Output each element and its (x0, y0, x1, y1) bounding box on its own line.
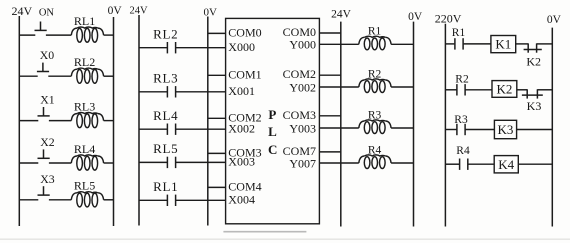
wire rung 3 section 2 left segment (139, 128, 167, 130)
label R1 (368, 26, 382, 38)
svg-text:R2: R2 (368, 68, 382, 80)
wire rung 2 section 1 right segment (104, 75, 114, 77)
wire from contact R2 to contactor K2 (465, 89, 492, 91)
switch X0 pushbutton contact (37, 63, 49, 72)
wire rung 3 section 1 left segment (19, 120, 38, 122)
relay coil R1 (359, 36, 391, 50)
pin label COM0 (283, 25, 316, 39)
contactor coil K1 box (491, 36, 516, 53)
wire input line to pin X003 (176, 161, 226, 163)
switch X2 pushbutton contact (38, 149, 50, 158)
label RL2 (74, 55, 95, 69)
label R3 (368, 109, 382, 121)
wire common stub to pin COM1 (208, 74, 226, 76)
wire rung 1 section 1 middle segment (46, 34, 71, 36)
contact R2 (relay R2 NO contact) (457, 84, 465, 95)
label C of PLC (268, 142, 277, 157)
contactor coil K3 box (494, 120, 516, 138)
wire rung 2 section 4 right segment (537, 89, 552, 91)
svg-text:Y003: Y003 (289, 121, 316, 135)
svg-text:X001: X001 (228, 84, 255, 98)
svg-text:RL5: RL5 (153, 141, 178, 156)
net label 0V (section 2) (203, 6, 217, 18)
relay coil RL3 (71, 112, 103, 127)
switch ON pushbutton contact (35, 22, 47, 31)
svg-text:COM4: COM4 (228, 180, 261, 194)
pin label Y003 (289, 121, 316, 135)
svg-text:0V: 0V (203, 6, 217, 18)
svg-text:Y007: Y007 (289, 156, 316, 170)
label R4 (368, 144, 382, 156)
wire rung 3 section 3 right segment (391, 127, 413, 129)
scan artifact - shadow under PLC box (223, 231, 306, 233)
svg-text:24V: 24V (11, 4, 32, 18)
wire input line to pin X004 (176, 199, 226, 201)
wire - 24V supply rail section 1 (18, 16, 20, 226)
wire common stub from pin COM0 to 24V rail (319, 32, 340, 34)
pin label X002 (228, 122, 255, 136)
label RL1 (74, 14, 95, 28)
svg-text:X0: X0 (40, 48, 55, 62)
wire output line Y002 to coil R2 (319, 86, 358, 88)
svg-text:220V: 220V (435, 11, 462, 25)
svg-text:R1: R1 (368, 26, 382, 38)
wire common stub from pin COM2 to 24V rail (319, 74, 340, 76)
label R2 (455, 73, 469, 85)
wire rung 2 section 1 left segment (19, 75, 37, 77)
svg-text:RL3: RL3 (74, 99, 95, 113)
contact RL4 (relay RL4 NO contact) (167, 124, 175, 135)
wire common stub to pin COM3 (208, 152, 226, 154)
svg-text:R3: R3 (368, 109, 382, 121)
wire rung 1 section 2 left segment (139, 47, 167, 49)
relay coil R4 (359, 155, 391, 169)
relay coil RL2 (71, 68, 103, 83)
wire from contact R4 to contactor K4 (468, 163, 494, 165)
label L of PLC (268, 124, 277, 139)
svg-text:K2: K2 (496, 82, 512, 97)
wire - 0V return rail section 4 (551, 28, 553, 227)
svg-text:K1: K1 (495, 37, 511, 52)
label P of PLC (268, 107, 276, 122)
svg-text:X003: X003 (228, 155, 255, 169)
wire rung 5 section 1 left segment (19, 199, 38, 201)
svg-text:C: C (268, 142, 277, 157)
svg-text:R1: R1 (452, 27, 466, 39)
wire rung 1 section 4 right segment (537, 43, 553, 45)
wire - 0V common rail section 2 (207, 17, 209, 226)
wire - 24V supply rail section 2 (138, 15, 140, 226)
net label 24V (section 3) (331, 8, 352, 20)
pin label Y007 (289, 156, 316, 170)
switch X3 pushbutton contact (38, 186, 50, 195)
wire from contact R1 to contactor K1 (464, 43, 491, 45)
pin label X000 (228, 40, 255, 54)
PLC controller U1 outline (226, 18, 320, 223)
svg-text:Y000: Y000 (289, 38, 316, 52)
wire common stub from pin COM3 to 24V rail (319, 115, 340, 117)
wire rung 4 section 3 right segment (391, 162, 413, 164)
svg-text:COM2: COM2 (283, 67, 316, 81)
wire input line to pin X002 (176, 128, 226, 130)
wire output line Y000 to coil R1 (319, 43, 358, 45)
svg-text:RL2: RL2 (153, 26, 178, 41)
label X3 (40, 172, 55, 186)
net label 24V (section 2) (129, 6, 148, 17)
wire rung 3 section 1 right segment (104, 120, 114, 122)
svg-text:COM3: COM3 (283, 108, 316, 122)
label ON (39, 8, 55, 19)
pin label X003 (228, 155, 255, 169)
wire rung 5 section 1 right segment (104, 199, 114, 201)
wire rung 1 section 1 left segment (19, 34, 35, 36)
label RL2 (153, 26, 178, 41)
wire rung 4 section 1 right segment (104, 162, 114, 164)
contactor coil K4 box (494, 156, 518, 173)
svg-text:R4: R4 (368, 144, 382, 156)
wire rung 3 section 4 right segment (517, 129, 553, 131)
svg-text:X002: X002 (228, 122, 255, 136)
wire rung 2 section 3 right segment (391, 86, 413, 88)
contact R1 (relay R1 NO contact) (455, 38, 463, 49)
wire rung 1 section 3 right segment (391, 43, 413, 45)
wire from contact R3 to contactor K3 (465, 129, 494, 131)
wire output line Y003 to coil R3 (319, 127, 358, 129)
wire rung 4 section 4 left segment (445, 163, 459, 165)
contact K2 (interlock contact) (524, 43, 542, 52)
net label 0V (section 1) (108, 5, 123, 17)
contact R3 (relay R3 NO contact) (457, 124, 465, 135)
wire - 24V supply rail section 3 (340, 22, 342, 227)
svg-text:R3: R3 (454, 114, 468, 126)
net label 0V (section 4) (547, 14, 562, 26)
label RL1 (153, 179, 178, 194)
relay coil R3 (359, 120, 391, 134)
wire from contactor K2 to contact K3 (517, 89, 527, 91)
svg-text:RL1: RL1 (74, 14, 95, 28)
label RL5 (74, 179, 95, 193)
pin label COM1 (228, 68, 261, 82)
pin label Y002 (289, 80, 316, 94)
svg-text:K3: K3 (498, 122, 514, 137)
svg-text:K4: K4 (498, 157, 514, 172)
relay coil RL1 (71, 27, 103, 42)
wire rung 1 section 4 left segment (445, 43, 454, 45)
svg-text:RL1: RL1 (153, 179, 178, 194)
wire rung 2 section 4 left segment (445, 89, 456, 91)
wire rung 3 section 4 left segment (445, 129, 456, 131)
svg-text:0V: 0V (547, 14, 562, 26)
svg-text:ON: ON (39, 8, 55, 19)
wire rung 2 section 1 middle segment (48, 75, 71, 77)
label R1 (452, 27, 466, 39)
wire from contactor K1 to contact K2 (516, 43, 529, 45)
svg-text:X1: X1 (40, 93, 55, 107)
pin label COM2 (228, 111, 261, 125)
relay coil RL5 (71, 192, 103, 207)
net label 0V (section 3) (408, 11, 423, 23)
svg-text:R2: R2 (455, 73, 469, 85)
label K3 (527, 99, 542, 113)
wire rung 4 section 1 left segment (19, 162, 38, 164)
svg-text:RL3: RL3 (153, 70, 178, 85)
contact RL2 (relay RL2 NO contact) (167, 42, 175, 53)
svg-text:0V: 0V (108, 5, 123, 17)
relay coil R2 (359, 79, 391, 93)
pin label X001 (228, 84, 255, 98)
wire input line to pin X000 (176, 47, 226, 49)
wire - 220V supply rail section 4 (444, 24, 446, 227)
pin label X004 (228, 193, 255, 207)
pin label COM3 (228, 146, 261, 160)
svg-text:R4: R4 (456, 145, 470, 157)
wire rung 4 section 1 middle segment (49, 162, 71, 164)
svg-text:RL2: RL2 (74, 55, 95, 69)
pin label COM3 (283, 108, 316, 122)
wire - 0V return rail section 1 (113, 17, 115, 226)
svg-text:RL5: RL5 (74, 179, 95, 193)
scan artifact - faint page line (0, 238, 570, 240)
wire output line Y007 to coil R4 (319, 162, 358, 164)
label R4 (456, 145, 470, 157)
label R3 (454, 114, 468, 126)
svg-text:X3: X3 (40, 172, 55, 186)
label X2 (40, 135, 55, 149)
wire rung 3 section 1 middle segment (49, 120, 71, 122)
wire rung 4 section 4 right segment (518, 163, 552, 165)
label K2 (526, 54, 541, 68)
label RL5 (153, 141, 178, 156)
contactor coil K2 box (492, 81, 517, 98)
label X0 (40, 48, 55, 62)
wire common stub to pin COM0 (208, 32, 226, 34)
contact RL1 (relay RL1 NO contact) (167, 195, 175, 206)
pin label COM2 (283, 67, 316, 81)
label RL3 (153, 70, 178, 85)
relay coil RL4 (71, 155, 103, 170)
switch X1 pushbutton contact (38, 107, 50, 116)
svg-text:Y002: Y002 (289, 80, 316, 94)
svg-text:L: L (268, 124, 277, 139)
svg-text:X2: X2 (40, 135, 55, 149)
label R2 (368, 68, 382, 80)
wire - 0V return rail section 3 (413, 22, 415, 227)
svg-text:24V: 24V (331, 8, 352, 20)
svg-text:0V: 0V (408, 11, 423, 23)
label RL4 (74, 142, 95, 156)
wire common stub to pin COM4 (208, 186, 226, 188)
pin label COM0 (228, 26, 261, 40)
net label 24V (section 1) (11, 4, 32, 18)
wire common stub to pin COM2 (208, 117, 226, 119)
pin label COM4 (228, 180, 261, 194)
svg-text:24V: 24V (129, 6, 148, 17)
svg-text:COM0: COM0 (228, 26, 261, 40)
svg-text:K2: K2 (526, 54, 541, 68)
contact RL5 (relay RL5 NO contact) (167, 157, 175, 168)
pin label COM7 (283, 144, 316, 158)
svg-text:RL4: RL4 (153, 108, 178, 123)
contact K3 (interlock contact) (522, 89, 543, 98)
contact R4 (relay R4 NO contact) (460, 159, 468, 170)
svg-text:COM1: COM1 (228, 68, 261, 82)
svg-text:X004: X004 (228, 193, 255, 207)
wire common stub from pin COM7 to 24V rail (319, 151, 340, 153)
svg-text:X000: X000 (228, 40, 255, 54)
wire rung 4 section 2 left segment (139, 161, 167, 163)
svg-text:RL4: RL4 (74, 142, 95, 156)
wire rung 5 section 2 left segment (139, 199, 167, 201)
svg-text:K3: K3 (527, 99, 542, 113)
contact RL3 (relay RL3 NO contact) (167, 86, 175, 97)
wire rung 2 section 2 left segment (139, 91, 167, 93)
wire input line to pin X001 (176, 91, 226, 93)
wire rung 1 section 1 right segment (104, 34, 114, 36)
label X1 (40, 93, 55, 107)
wire rung 5 section 1 middle segment (49, 199, 71, 201)
pin label Y000 (289, 38, 316, 52)
svg-text:P: P (268, 107, 276, 122)
label RL3 (74, 99, 95, 113)
net label 220V (section 4) (435, 11, 462, 25)
label RL4 (153, 108, 178, 123)
